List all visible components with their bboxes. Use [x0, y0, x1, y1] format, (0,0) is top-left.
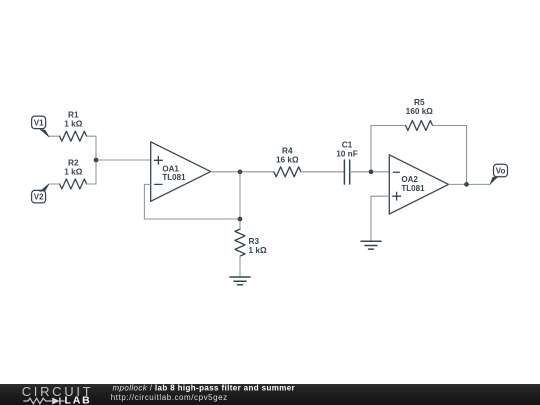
svg-text:TL081: TL081	[162, 173, 186, 182]
resistor R1	[60, 111, 87, 142]
node C1/R5 junction	[369, 169, 374, 174]
ground below R3	[230, 277, 250, 285]
wire R1 right	[87, 135, 96, 137]
node V2 flag	[32, 184, 50, 203]
node Vo flag	[489, 164, 507, 185]
wire junction up to R5	[370, 126, 372, 172]
svg-text:mpollock / lab 8 high-pass fil: mpollock / lab 8 high-pass filter and su…	[113, 383, 296, 392]
wire OA1 output down to feedback	[239, 172, 241, 219]
wire OA1 feedback left vertical	[143, 184, 145, 219]
capacitor C1	[336, 141, 358, 185]
op-amp OA1	[151, 142, 211, 202]
svg-text:LAB: LAB	[65, 395, 92, 405]
resistor R2	[60, 158, 87, 189]
node V1 flag	[32, 116, 50, 137]
ground below OA2	[361, 241, 381, 249]
wire R2 right	[87, 183, 96, 185]
svg-text:R2: R2	[68, 158, 79, 167]
wire R4 to C1	[301, 171, 345, 173]
node OA1 output junction	[238, 169, 243, 174]
node feedback/R3 junction	[238, 217, 243, 222]
svg-text:1 kΩ: 1 kΩ	[249, 246, 267, 255]
svg-text:OA2: OA2	[401, 175, 418, 184]
footer bar	[0, 384, 540, 405]
wire R5 right	[433, 125, 467, 127]
CircuitLab logo	[22, 384, 94, 405]
wire C1 to OA2 - input	[350, 171, 390, 173]
node A junction R1/R2	[94, 158, 99, 163]
svg-text:1 kΩ: 1 kΩ	[64, 120, 82, 129]
svg-text:TL081: TL081	[401, 184, 425, 193]
footer title text	[111, 383, 295, 401]
wire OA1 output	[211, 171, 274, 173]
wire node A to OA1 + input	[96, 159, 151, 161]
svg-text:10 nF: 10 nF	[336, 149, 358, 158]
svg-text:V1: V1	[34, 118, 44, 127]
svg-text:V2: V2	[34, 193, 44, 202]
resistor R3	[235, 229, 267, 256]
wire V2 to R2	[49, 183, 59, 185]
wire junction to R3	[239, 219, 241, 229]
svg-text:Vo: Vo	[496, 166, 506, 175]
svg-text:16 kΩ: 16 kΩ	[276, 155, 299, 164]
svg-text:C1: C1	[342, 141, 353, 150]
wire OA2 + input	[371, 195, 389, 197]
svg-text:R5: R5	[414, 98, 425, 107]
svg-text:R4: R4	[282, 147, 293, 156]
resistor R4	[274, 147, 301, 177]
op-amp OA2	[389, 155, 448, 214]
wire vertical joining R1 and R2	[95, 136, 97, 184]
wire OA1 feedback bottom	[144, 218, 240, 220]
wire to R5 left	[371, 125, 406, 127]
svg-text:R1: R1	[68, 111, 79, 120]
svg-text:1 kΩ: 1 kΩ	[64, 167, 82, 176]
wire R5 down to output	[466, 126, 468, 185]
resistor R5	[406, 98, 434, 131]
svg-text:R3: R3	[249, 237, 260, 246]
wire OA2 + to ground	[370, 196, 372, 241]
wire OA1 - input stub	[144, 183, 150, 185]
svg-text:OA1: OA1	[162, 164, 179, 173]
svg-text:http://circuitlab.com/cpv5gez: http://circuitlab.com/cpv5gez	[111, 393, 228, 402]
wire OA2 output	[449, 183, 490, 185]
node R5/output junction	[464, 182, 469, 187]
wire R3 to ground	[239, 256, 241, 277]
svg-text:160 kΩ: 160 kΩ	[406, 107, 434, 116]
wire V1 to R1	[49, 135, 59, 137]
